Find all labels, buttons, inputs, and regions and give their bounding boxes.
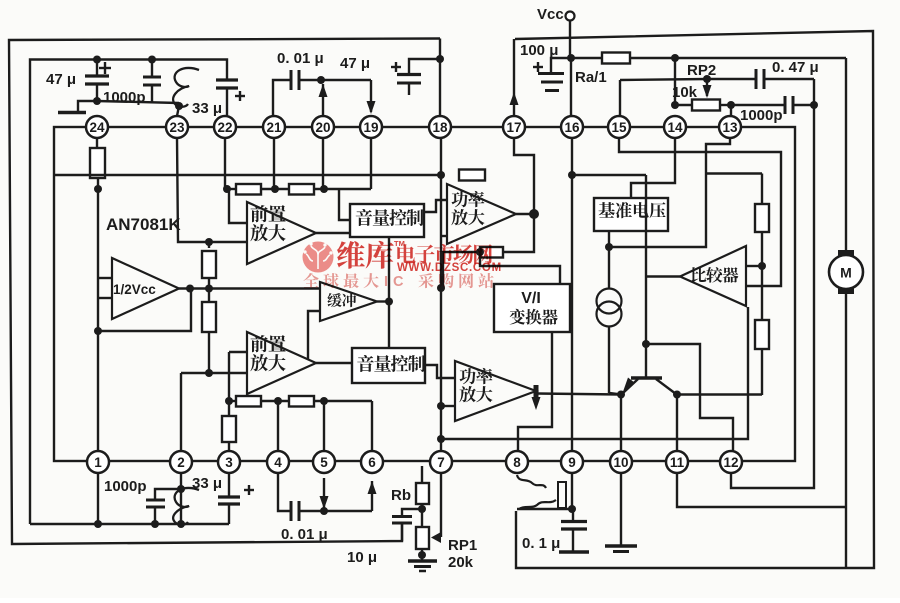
- wire buffer input: [213, 287, 320, 289]
- svg-text:2: 2: [177, 455, 185, 470]
- wire inner top-left rail: [30, 60, 227, 525]
- arrow into pin20: [319, 84, 328, 116]
- svg-text:RP1: RP1: [448, 537, 477, 554]
- node rail-RP2: [671, 54, 679, 62]
- capacitor 0.01u (pin4/5): [278, 473, 372, 543]
- svg-text:8: 8: [513, 455, 521, 470]
- svg-text:10k: 10k: [672, 84, 698, 101]
- pin 20: [312, 116, 334, 138]
- node feedback-V/I tap: [476, 248, 484, 256]
- wire pin11 down: [677, 473, 846, 507]
- resistor pin24 chain: [90, 138, 105, 451]
- node rail-1000p: [148, 56, 156, 64]
- ground (pin10): [605, 473, 637, 552]
- pin 4: [267, 451, 289, 473]
- pin 10: [610, 451, 632, 473]
- svg-text:Ra/1: Ra/1: [575, 69, 607, 86]
- node row2 mid: [261, 397, 289, 405]
- wire feedback to pin7 net: [437, 252, 480, 292]
- pin 3: [218, 451, 240, 473]
- svg-text:18: 18: [432, 120, 448, 135]
- node row1 left: [223, 185, 231, 193]
- svg-text:17: 17: [506, 120, 521, 135]
- pin 23: [166, 116, 188, 138]
- capacitor 1000p (pin23 top): [103, 60, 161, 107]
- wire pin13 up: [730, 105, 732, 116]
- potentiometer RP2 10k: [671, 62, 735, 111]
- capacitor 1000p (pin2): [104, 478, 181, 528]
- block reference voltage: [594, 198, 668, 231]
- pin 11: [666, 451, 688, 473]
- node bias-pin16: [568, 171, 576, 179]
- wire bias rail y175: [54, 174, 441, 176]
- crystal/squiggle (pin23): [173, 68, 199, 116]
- wire motor return: [845, 293, 847, 568]
- wire motor feed: [845, 58, 847, 253]
- svg-text:RP2: RP2: [687, 62, 716, 79]
- capacitor 33u (pin22): [192, 80, 245, 117]
- arrow into pin19: [367, 80, 376, 114]
- wire PA1 feedback: [503, 214, 534, 252]
- svg-text:0. 47 μ: 0. 47 μ: [772, 59, 819, 76]
- watermark TM: [394, 239, 405, 248]
- capacitor 0.47u: [756, 59, 819, 89]
- op-amp preamp2: [247, 332, 316, 394]
- wire bottom-left rail: [30, 523, 229, 525]
- capacitor 10u: [347, 509, 422, 566]
- wire volume1 input tap: [339, 189, 351, 220]
- svg-text:23: 23: [169, 120, 185, 135]
- node emitter: [617, 391, 625, 399]
- op-amp comparator: [680, 246, 746, 306]
- wire PA1 -input: [441, 235, 447, 237]
- svg-text:4: 4: [274, 455, 282, 470]
- IC body AN7081K: [54, 127, 795, 461]
- wire pin4 inside: [277, 401, 279, 451]
- wire: outer loop right (Vcc side border): [515, 31, 874, 568]
- pin 21: [263, 116, 285, 138]
- wire V/I out to pin8: [518, 332, 552, 451]
- op-amp buffer: [320, 282, 377, 321]
- pin 17: [503, 116, 525, 138]
- capacitor 0.01u (pin21/20): [273, 50, 324, 116]
- node buffer out: [377, 298, 393, 306]
- svg-text:15: 15: [611, 120, 627, 135]
- svg-text:100 μ: 100 μ: [520, 42, 558, 59]
- wire pin7 comparator link: [437, 307, 748, 443]
- svg-text:24: 24: [89, 120, 105, 135]
- svg-text:V/I: V/I: [521, 290, 541, 307]
- wire Vcc down: [569, 21, 571, 58]
- op-amp power amp 2: [455, 361, 536, 421]
- Vcc terminal: [537, 6, 575, 23]
- wire PA2 out to pin10 node: [537, 394, 621, 395]
- watermark url: [397, 262, 502, 274]
- node row1 mid: [261, 185, 289, 193]
- node 0.01u-pin20: [317, 76, 325, 84]
- wire pin19 inside: [370, 138, 372, 189]
- block V/I converter: [494, 284, 570, 332]
- resistor row1 b: [289, 184, 371, 195]
- svg-text:9: 9: [568, 455, 576, 470]
- wire pin13 inside: [609, 139, 730, 247]
- arrow up to pin6: [368, 481, 377, 511]
- pin 18: [429, 116, 451, 138]
- resistor row2 b: [289, 396, 372, 407]
- wire pin1 down: [94, 473, 102, 528]
- pin 6: [361, 451, 383, 473]
- svg-text:Vcc: Vcc: [537, 6, 564, 23]
- wire PA2 -input: [437, 402, 455, 410]
- svg-text:21: 21: [266, 120, 282, 135]
- pin 8: [506, 451, 528, 473]
- svg-text:20: 20: [315, 120, 330, 135]
- wire pin15 to RP2 wiper: [620, 75, 756, 116]
- node collector: [673, 391, 681, 399]
- svg-text:1000p: 1000p: [740, 107, 783, 124]
- wire pin17 up with arrow: [510, 39, 519, 116]
- svg-text:AN7081K: AN7081K: [106, 215, 181, 234]
- wire pin17 inside: [514, 139, 534, 214]
- wire rail to RP2: [674, 58, 676, 105]
- watermark 电子市场网: [397, 244, 492, 264]
- block volume control 1: [350, 204, 424, 237]
- wire pin18/pin7 vertical: [437, 139, 445, 451]
- svg-text:11: 11: [670, 455, 685, 470]
- svg-text:20k: 20k: [448, 554, 474, 571]
- wire pin16 to Vcc node: [570, 58, 572, 116]
- wire 1/2Vcc output: [179, 285, 213, 293]
- node PA1 output: [516, 209, 539, 219]
- resistor row2 a: [225, 396, 261, 407]
- wire ref to current source: [605, 231, 613, 289]
- pin 7: [430, 451, 452, 473]
- pin 13: [719, 116, 741, 138]
- op-amp 1/2Vcc: [112, 258, 179, 319]
- wire pin2 inside: [180, 373, 182, 451]
- capacitor 1000p (top right): [731, 96, 814, 124]
- wire preamp1 out: [316, 232, 351, 234]
- resistor divider chain: [202, 238, 216, 373]
- ground (RP1): [408, 561, 437, 571]
- pin 1: [87, 451, 109, 473]
- wire 47u-1000p bottom link: [97, 101, 179, 103]
- wire pin23 inside: [177, 138, 209, 242]
- wire pin13 branch to chain: [706, 174, 762, 205]
- wire preamp2 +input: [229, 352, 247, 401]
- resistor comp bottom: [755, 266, 769, 395]
- pin 22: [214, 116, 236, 138]
- watermark logo: [303, 242, 334, 273]
- wire 0.1u link: [517, 505, 576, 513]
- resistor Ra/1: [575, 53, 630, 87]
- wire volume1 out to PA1: [424, 200, 447, 212]
- wire collector: [677, 395, 762, 452]
- svg-text:0. 01 μ: 0. 01 μ: [281, 526, 328, 543]
- pin 5: [313, 451, 335, 473]
- arrow PA2 output: [532, 385, 541, 410]
- pin 24: [86, 116, 108, 138]
- svg-text:IC: IC: [384, 274, 409, 290]
- wire Vcc rail: [571, 57, 846, 59]
- svg-text:WWW.DZSC.COM: WWW.DZSC.COM: [397, 262, 502, 274]
- wire preamp2 out: [316, 362, 352, 364]
- svg-text:0. 01 μ: 0. 01 μ: [277, 50, 324, 67]
- svg-text:1000p: 1000p: [103, 89, 146, 106]
- capacitor 33u (pin3): [192, 473, 254, 524]
- svg-text:1: 1: [94, 455, 102, 470]
- svg-text:Rb: Rb: [391, 487, 411, 504]
- wire 1/2Vcc -input: [98, 297, 112, 299]
- pin 19: [360, 116, 382, 138]
- resistor comp top: [755, 204, 769, 266]
- node pin18 top: [436, 55, 444, 63]
- svg-text:47 μ: 47 μ: [46, 71, 76, 88]
- motor M: [829, 250, 863, 294]
- svg-text:12: 12: [723, 455, 738, 470]
- svg-text:14: 14: [667, 120, 683, 135]
- arrow into 0.01u node (pin5): [320, 478, 329, 509]
- capacitor 47u (pin24): [46, 60, 111, 102]
- svg-text:19: 19: [363, 120, 378, 135]
- node chain-189: [94, 185, 102, 193]
- svg-text:TM: TM: [394, 239, 405, 248]
- wire: outer ground loop left (top-left border): [9, 39, 440, 545]
- pin 15: [608, 116, 630, 138]
- transistor Q1: [622, 175, 676, 395]
- svg-text:1000p: 1000p: [104, 478, 147, 495]
- svg-text:10: 10: [613, 455, 628, 470]
- pin 16: [561, 116, 583, 138]
- op-amp power amp 1: [447, 184, 516, 244]
- node 47u bottom: [93, 97, 101, 105]
- wire emitter to pin10: [620, 395, 622, 452]
- resistor row1 a: [227, 184, 261, 195]
- block volume control 2: [352, 348, 425, 383]
- node 0.47u/1000p junction: [810, 101, 818, 109]
- wire pin22 inside: [224, 138, 226, 189]
- capacitor 47u (pin18): [340, 55, 440, 95]
- wire comparator out: [646, 275, 680, 277]
- wire pin15 inside: [619, 139, 781, 286]
- wire pin5 inside: [323, 401, 325, 451]
- svg-text:10 μ: 10 μ: [347, 549, 377, 566]
- node rail-47u: [93, 56, 101, 64]
- svg-text:7: 7: [437, 455, 445, 470]
- pin 14: [664, 116, 686, 138]
- watermark slogan: [303, 273, 493, 290]
- wire base network: [646, 344, 733, 451]
- wire 1/2Vcc feedback: [98, 289, 191, 332]
- capacitor 0.1u: [522, 509, 589, 552]
- wire pin2 down: [177, 473, 185, 528]
- wire current source down: [609, 326, 621, 395]
- wire 1/2Vcc +input: [98, 277, 112, 279]
- wire pin9 down: [571, 473, 573, 509]
- svg-text:13: 13: [722, 120, 738, 135]
- crystal/squiggle (pin2): [173, 488, 199, 525]
- pin 2: [170, 451, 192, 473]
- resistor bias y175: [459, 170, 485, 181]
- svg-text:33 μ: 33 μ: [192, 475, 222, 492]
- wire pin6 inside: [371, 401, 373, 451]
- wire junction down to pin12 path: [731, 79, 814, 488]
- wire to pin19 arrow: [321, 79, 371, 81]
- svg-text:0. 1 μ: 0. 1 μ: [522, 535, 560, 552]
- resistor Rb: [391, 466, 429, 527]
- wire pin8 squiggle: [517, 475, 566, 509]
- wire pin21 inside: [273, 138, 275, 189]
- resistor PA1 feedback: [480, 247, 503, 258]
- svg-text:5: 5: [320, 455, 328, 470]
- watermark 维库: [337, 241, 394, 269]
- svg-text:1/2Vcc: 1/2Vcc: [113, 282, 156, 297]
- pin 9: [561, 451, 583, 473]
- wire pin14 inside: [631, 139, 675, 198]
- svg-text:M: M: [840, 265, 852, 281]
- potentiometer RP1 20k: [416, 473, 477, 571]
- pin 12: [720, 451, 742, 473]
- svg-text:22: 22: [217, 120, 232, 135]
- wire preamp1 -input: [209, 241, 247, 243]
- wire pin16-pin9 vertical: [571, 139, 573, 451]
- svg-text:6: 6: [368, 455, 376, 470]
- svg-text:33 μ: 33 μ: [192, 100, 222, 117]
- node Vcc junction: [567, 54, 575, 62]
- wire pin20 inside: [322, 138, 324, 189]
- wire volume2 out to PA2: [425, 365, 455, 378]
- wire preamp1 +input: [229, 189, 247, 223]
- wire buffer lower input: [308, 311, 320, 360]
- wire pin18 up: [439, 39, 441, 117]
- resistor pin3 chain: [222, 401, 236, 451]
- svg-text:16: 16: [564, 120, 580, 135]
- node comp mid: [746, 262, 766, 270]
- wire buffer out to volume boxes: [388, 237, 390, 348]
- current source: [597, 289, 622, 327]
- node chain-331: [94, 327, 102, 335]
- wire preamp2 -input: [181, 369, 247, 377]
- capacitor 100u: [520, 42, 571, 91]
- svg-text:3: 3: [225, 455, 233, 470]
- wire to V/I input: [480, 252, 560, 284]
- wire bias to transistor base: [572, 174, 646, 176]
- ground (top left): [58, 101, 97, 113]
- svg-text:47 μ: 47 μ: [340, 55, 370, 72]
- op-amp preamp1: [247, 202, 316, 264]
